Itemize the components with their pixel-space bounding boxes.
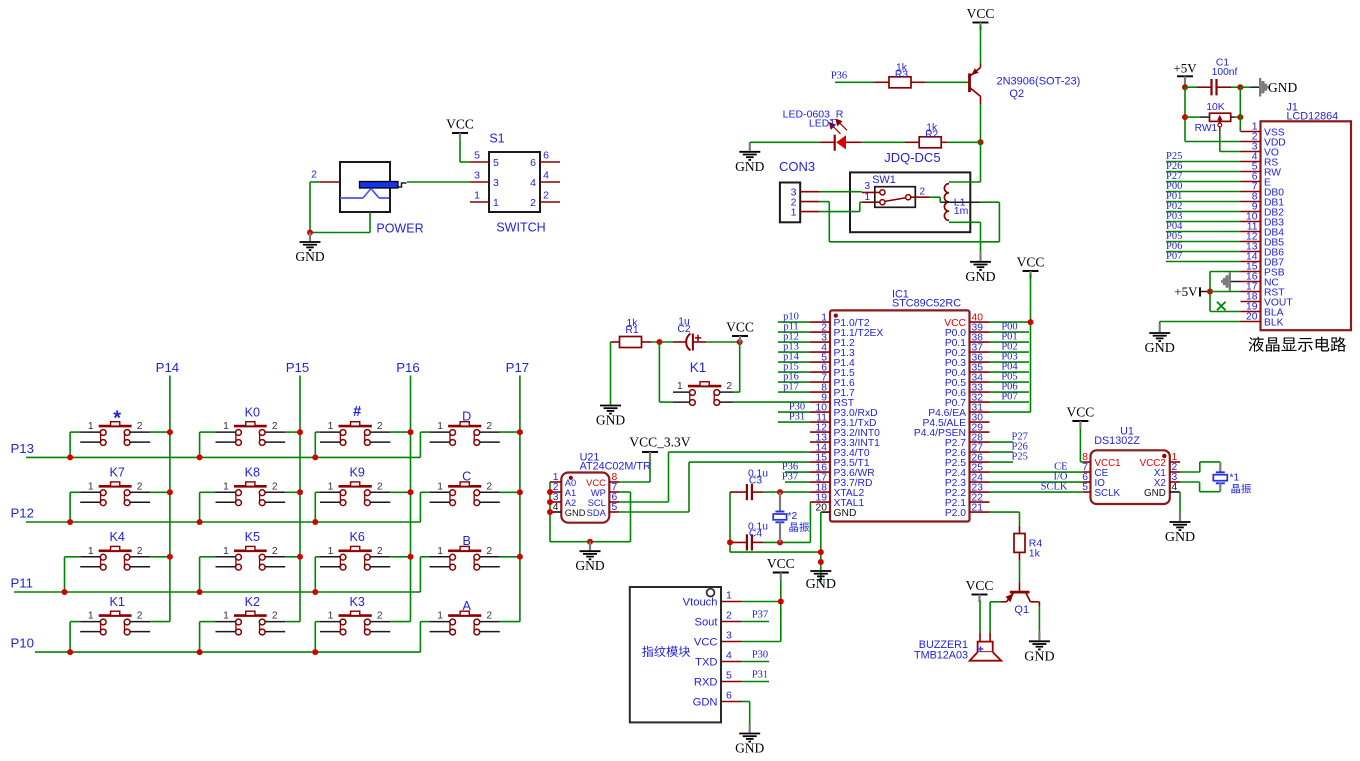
capacitor C1 100nf [1185, 58, 1240, 96]
svg-text:Vtouch: Vtouch [683, 597, 718, 609]
pin 15 of J1 [1241, 262, 1261, 273]
wire K4 pin1 to row bus [65, 557, 81, 592]
pin 7 of J1 [1241, 182, 1261, 193]
power +5V at J1 RST pin 17 [1174, 284, 1210, 299]
wire D pin2 to column P17 [500, 431, 520, 433]
pin 20 of IC1 [816, 502, 830, 513]
wire and net label CE from IC1 to U1 [990, 461, 1084, 472]
junction column P16 row 3 [408, 554, 414, 560]
transistor Q1 [1001, 583, 1039, 616]
wire GND to LED1 cathode [750, 141, 821, 143]
junction C1 right [1237, 84, 1243, 90]
wire and net label p16 at IC1 pin 7 [778, 372, 810, 383]
svg-text:3: 3 [474, 170, 480, 182]
svg-text:P13: P13 [11, 441, 34, 456]
pin 8 of U1 [1082, 452, 1090, 463]
svg-text:3: 3 [493, 177, 499, 189]
wire K8 pin1 to row bus [200, 492, 216, 522]
wire and net label P02 at J1 pin 9 [1166, 201, 1241, 212]
svg-text:K2: K2 [245, 595, 260, 609]
wire Q2 collector to relay coil top [949, 142, 981, 182]
wire * pin2 to column P14 [150, 431, 170, 433]
wire VCC node down to K1 pin2 top [733, 342, 740, 392]
switch K1 (key row P10 col P14) [80, 595, 150, 635]
power VCC above K1 [726, 320, 754, 344]
svg-text:VCC: VCC [967, 6, 995, 21]
wire R4 to Q1 collector [1019, 560, 1021, 582]
svg-text:R1: R1 [625, 325, 638, 336]
wire RW1 wiper to VO pin3 [1220, 131, 1241, 152]
svg-text:WP: WP [591, 488, 606, 498]
pin 13 of J1 [1241, 242, 1261, 253]
svg-text:4: 4 [1172, 482, 1178, 493]
wire CON3 pin1 to SW1 pin1 [820, 202, 862, 211]
pin 20 of J1 [1241, 312, 1261, 323]
junction C2 left node [656, 339, 662, 345]
svg-text:VCC: VCC [586, 478, 606, 488]
pin 22 of IC1 [970, 492, 990, 503]
svg-text:A0: A0 [565, 478, 576, 488]
wire U1 X2 to crystal [1180, 482, 1220, 492]
wire K0 pin1 to row bus [200, 432, 216, 457]
svg-text:VCC: VCC [446, 117, 474, 132]
junction column P14 row 3 [167, 554, 173, 560]
svg-text:GND: GND [575, 558, 604, 573]
svg-text:2: 2 [486, 611, 492, 622]
lcd connector J1 LCD12864 body [1261, 102, 1352, 331]
svg-text:1: 1 [223, 421, 229, 432]
wire and net label P03 at IC1 pin 36 [990, 352, 1030, 363]
power VCC above buzzer [966, 578, 994, 602]
wire K3 pin2 to column P16 [390, 621, 410, 623]
wire B pin1 to row bus [420, 557, 429, 592]
svg-text:VCC: VCC [1067, 405, 1095, 420]
power VCC above S1 [446, 117, 474, 141]
junction column P17 row 3 [517, 554, 523, 560]
svg-text:K0: K0 [245, 406, 260, 420]
resistor R1 1k [611, 318, 652, 348]
svg-text:P37: P37 [752, 610, 768, 621]
junction C4 left [727, 539, 733, 545]
power VCC above IC1 pin 40 [1017, 255, 1045, 279]
wire and net label P31 at fingerprint RXD [741, 670, 769, 682]
switch K8 (key row P12 col P15) [216, 466, 286, 506]
svg-text:GND: GND [806, 577, 836, 592]
svg-text:P10: P10 [11, 636, 34, 651]
wire VCC to fingerprint pin1 and pin3 [741, 580, 781, 642]
eeprom U21 AT24C02M/TR body [561, 452, 651, 523]
svg-text:SW1: SW1 [872, 174, 896, 186]
switch K3 (key row P10 col P16) [320, 595, 390, 635]
svg-text:2: 2 [543, 190, 549, 202]
wire and net label P25 at IC1 pin 26 [990, 451, 1028, 462]
wire VCC_3.3V to U21 pin 8 [619, 460, 650, 483]
pin 16 of IC1 [810, 462, 830, 473]
wire VCC to U1 pin 8 VCC1 [1079, 429, 1081, 463]
junction P10 bus at col 1 [67, 649, 73, 655]
wire and net label P36 at IC1 pin 16 [782, 462, 810, 473]
svg-text:2: 2 [377, 421, 383, 432]
pin 1 of SW1 [862, 192, 880, 203]
pin 38 of IC1 [970, 332, 990, 343]
junction U21 ground rail [587, 539, 593, 545]
svg-text:GND: GND [735, 741, 764, 756]
junction VCC node right of C2 [737, 339, 743, 345]
wire U1 pin 4 to ground [1179, 492, 1181, 513]
pin 40 of IC1 [970, 312, 990, 323]
svg-text:VCC: VCC [966, 578, 994, 593]
svg-text:C: C [462, 470, 471, 484]
svg-text:RW1: RW1 [1195, 123, 1218, 134]
resistor R3 1k [875, 63, 926, 88]
wire relay common to CON3 pin2 long route [820, 202, 1000, 242]
fingerprint module body (指纹模块) [630, 587, 721, 722]
power VCC above U1 [1067, 405, 1095, 429]
svg-text:1: 1 [474, 190, 480, 202]
svg-text:GND: GND [1165, 530, 1195, 545]
svg-text:GND: GND [1145, 341, 1175, 356]
svg-text:A2: A2 [565, 498, 576, 508]
svg-text:VCC: VCC [694, 637, 718, 649]
svg-text:*1: *1 [1230, 473, 1240, 484]
pin 16 of J1 [1241, 272, 1261, 283]
net label P36 and wire to R3 [831, 71, 875, 83]
pin 5 of S1 [470, 150, 489, 163]
svg-text:*2: *2 [788, 511, 798, 522]
junction column P15 row 1 [297, 429, 303, 435]
pin 6 of J1 [1241, 172, 1261, 183]
svg-text:1: 1 [437, 421, 443, 432]
wire and net label P04 at IC1 pin 35 [990, 362, 1030, 373]
junction column P14 row 2 [167, 489, 173, 495]
ground GND below U21 [575, 542, 604, 574]
pin 19 of IC1 [810, 492, 830, 503]
switch SW1 inside relay [872, 174, 915, 207]
svg-text:5: 5 [612, 502, 618, 513]
ground GND below R1 [596, 342, 625, 428]
svg-text:1: 1 [88, 481, 94, 492]
wire PSB to BLA loop [1210, 272, 1241, 312]
crystal Y2 (*2 crystal) [773, 492, 809, 542]
svg-text:1k: 1k [1029, 548, 1041, 560]
microcontroller IC1 STC89C52RC body [830, 289, 970, 522]
pin 1 of J1 [1241, 122, 1261, 133]
wire # pin2 to column P16 [390, 431, 410, 433]
wire R2 to Q2 collector node [948, 141, 981, 143]
junction crystal bottom at XTAL1 [777, 539, 783, 545]
pin 2 of J1 [1241, 132, 1261, 143]
svg-text:2: 2 [137, 481, 143, 492]
wire C4 to XTAL1 bend [763, 502, 810, 542]
pin 13 of IC1 [810, 432, 830, 443]
svg-text:2: 2 [137, 421, 143, 432]
svg-text:K1: K1 [690, 360, 707, 375]
svg-text:K4: K4 [109, 530, 124, 544]
pin 4 of S1 [540, 170, 560, 183]
svg-text:Q1: Q1 [1014, 604, 1029, 616]
svg-text:100nf: 100nf [1212, 67, 1238, 78]
svg-text:2: 2 [377, 611, 383, 622]
svg-text:K8: K8 [245, 466, 260, 480]
svg-text:P07: P07 [1001, 392, 1017, 403]
potentiometer RW1 10K [1185, 102, 1240, 134]
svg-text:4: 4 [553, 502, 559, 513]
pin 18 of IC1 [810, 482, 830, 493]
wire and net label P01 at IC1 pin 38 [990, 332, 1030, 343]
pin 14 of J1 [1241, 252, 1261, 263]
wire K3 pin1 to row bus [315, 622, 320, 653]
svg-text:2: 2 [137, 546, 143, 557]
wire Q2 collector down to relay node [980, 104, 982, 142]
svg-text:1: 1 [726, 590, 732, 602]
junction column P15 row 3 [297, 554, 303, 560]
junction P11 bus at col 3 [312, 589, 318, 595]
svg-text:P37: P37 [782, 472, 798, 483]
svg-text:P11: P11 [11, 576, 34, 591]
svg-text:1: 1 [437, 611, 443, 622]
wire IC1 pin 20 GND down [820, 512, 822, 582]
svg-text:K5: K5 [245, 530, 260, 544]
wire VCC to S1 pin 5 [460, 141, 470, 163]
junction GND rail lower [818, 559, 824, 565]
svg-text:SDA: SDA [587, 508, 607, 518]
pin 17 of IC1 [810, 472, 830, 483]
switch B (key row P11 col P17) [430, 534, 500, 570]
pin 9 of J1 [1241, 202, 1261, 213]
svg-text:VCC_3.3V: VCC_3.3V [629, 435, 690, 450]
svg-text:#: # [353, 404, 361, 420]
switch A (key row P10 col P17) [430, 599, 500, 635]
pin 3 of fingerprint module [721, 630, 741, 642]
pin 6 of IC1 [810, 362, 830, 373]
wire and net label P37 at fingerprint Sout [741, 610, 769, 622]
svg-text:S1: S1 [489, 132, 504, 146]
junction P13 bus at col 1 [67, 454, 73, 460]
pin 29 of IC1 [970, 422, 990, 433]
svg-text:A1: A1 [565, 488, 576, 498]
switch * (key row P13 col P14) [80, 408, 150, 446]
svg-text:P2.0: P2.0 [945, 508, 966, 519]
pin 27 of IC1 [970, 442, 990, 453]
pin 4 of U1 [1170, 482, 1180, 493]
pin 25 of IC1 [970, 462, 990, 473]
svg-text:2: 2 [920, 187, 926, 198]
junction at POWER ground [307, 230, 313, 236]
svg-text:GND: GND [735, 159, 764, 174]
svg-text:2: 2 [272, 481, 278, 492]
switch K5 (key row P11 col P15) [216, 530, 286, 570]
svg-text:VCC: VCC [767, 556, 795, 571]
svg-text:1: 1 [328, 546, 334, 557]
junction crystal top at XTAL2 [777, 489, 783, 495]
svg-text:+5V: +5V [1173, 61, 1197, 76]
svg-text:POWER: POWER [376, 221, 423, 235]
pin 4 of fingerprint module [721, 650, 741, 662]
svg-text:1: 1 [328, 421, 334, 432]
junction RW1 right [1237, 114, 1243, 120]
wire C pin1 to row bus [420, 492, 429, 522]
svg-text:LCD12864: LCD12864 [1287, 111, 1339, 123]
svg-text:GND: GND [1144, 488, 1166, 499]
junction P12 bus at col 2 [197, 519, 203, 525]
wire K9 pin1 to row bus [315, 492, 320, 522]
wire SDA from U21 to IC1 pin 15 [619, 462, 810, 512]
pin 39 of IC1 [970, 322, 990, 333]
svg-text:6: 6 [530, 157, 536, 169]
pin 22 of IC1 unconnected [0, 0, 1, 1]
svg-text:4: 4 [543, 170, 549, 182]
wire relay coil bottom to ground [949, 222, 981, 252]
svg-text:C3: C3 [749, 476, 762, 487]
svg-text:1: 1 [223, 481, 229, 492]
svg-text:SCLK: SCLK [1041, 481, 1068, 492]
wire and net label p17 at IC1 pin 8 [778, 382, 810, 393]
inductor L1 relay coil 1m [940, 184, 979, 221]
svg-text:GND: GND [834, 508, 857, 519]
svg-text:2N3906(SOT-23): 2N3906(SOT-23) [997, 75, 1081, 87]
wire column P16 vertical [410, 376, 412, 622]
junction column P14 row 1 [167, 429, 173, 435]
wire column P14 vertical [169, 376, 171, 622]
pin 6 of U1 [1082, 472, 1090, 483]
junction RW1 left [1182, 114, 1188, 120]
junction P10 bus at col 3 [312, 649, 318, 655]
wire C3/C4 left common [729, 492, 731, 552]
svg-text:20: 20 [816, 502, 828, 513]
svg-text:K7: K7 [109, 466, 124, 480]
wire and net label P31 at IC1 pin 11 [778, 412, 810, 423]
wire and net label P00 at J1 pin 7 [1166, 181, 1241, 192]
wire and net label P07 at IC1 pin 32 [990, 392, 1030, 403]
wire K2 pin1 to row bus [200, 622, 216, 653]
svg-text:1m: 1m [954, 205, 969, 217]
switch K6 (key row P11 col P16) [320, 530, 390, 570]
wire K9 pin2 to column P16 [390, 491, 410, 493]
pin 7 of U1 [1082, 462, 1090, 473]
wire column P15 vertical [299, 376, 301, 622]
svg-text:2: 2 [486, 421, 492, 432]
svg-text:Q2: Q2 [1009, 88, 1024, 100]
svg-text:1: 1 [493, 197, 499, 209]
pin 1 of U21 [550, 472, 561, 483]
junction P12 bus at col 3 [312, 519, 318, 525]
wire and net label P37 at IC1 pin 17 [782, 472, 810, 483]
pin 11 of IC1 [810, 412, 830, 423]
wire K7 pin1 to row bus [70, 492, 80, 522]
svg-text:GND: GND [565, 508, 586, 518]
svg-text:K6: K6 [349, 530, 364, 544]
ground GND under POWER [295, 233, 324, 265]
pin 2 of S1 [540, 190, 560, 203]
wire XTAL ground link to IC1 pin20 rail [730, 551, 821, 553]
wire row bus P11 [14, 591, 420, 593]
wire A pin1 to row bus [420, 622, 429, 653]
wire K1 pin2 to column P14 [150, 621, 170, 623]
pin 2 of CON3 [800, 201, 820, 203]
resistor R4 1k vertical [1014, 526, 1042, 560]
wire and net label p12 at IC1 pin 3 [778, 332, 810, 343]
pin 23 of IC1 [970, 482, 990, 493]
pin 8 of IC1 [810, 382, 830, 393]
wire and net label p13 at IC1 pin 4 [778, 342, 810, 353]
pin 11 of J1 [1241, 222, 1261, 233]
svg-text:P17: P17 [506, 360, 529, 375]
svg-text:STC89C52RC: STC89C52RC [892, 298, 961, 310]
junction U21 pin2 [547, 489, 553, 495]
pin 3 of IC1 [810, 332, 830, 343]
svg-text:TXD: TXD [695, 657, 717, 669]
wire Q1 emitter to buzzer [990, 602, 1001, 633]
svg-text:DS1302Z: DS1302Z [1094, 435, 1140, 447]
wire U21 WP to ground rail [619, 492, 630, 542]
wire B pin2 to column P17 [500, 556, 520, 558]
svg-text:BLK: BLK [1264, 318, 1284, 329]
wire and net label P05 at J1 pin 12 [1166, 231, 1241, 242]
svg-text:2: 2 [530, 197, 536, 209]
wire POWER to GND loop [310, 182, 370, 233]
pin 36 of IC1 [970, 352, 990, 363]
svg-text:2: 2 [137, 611, 143, 622]
wire J1 BLK pin 20 to ground [1160, 322, 1241, 324]
junction +5V RST [1207, 289, 1213, 295]
ground GND left of LED1 [735, 142, 764, 174]
svg-text:1: 1 [223, 611, 229, 622]
led LED1 LED-0603_R [783, 109, 862, 151]
svg-text:1: 1 [437, 546, 443, 557]
wire and net label p10 at IC1 pin 1 [778, 312, 810, 323]
wire D pin1 to row bus [420, 432, 429, 457]
wire and net label P03 at J1 pin 10 [1166, 211, 1241, 222]
wire and net label p11 at IC1 pin 2 [778, 322, 810, 333]
wire and net label P30 at IC1 pin 10 [778, 402, 810, 413]
wire +5V rail down to VDD [1185, 87, 1241, 141]
svg-text:P36: P36 [831, 71, 847, 82]
wire K0 pin2 to column P15 [285, 431, 300, 433]
switch K9 (key row P12 col P16) [320, 466, 390, 506]
pin 37 of IC1 [970, 342, 990, 353]
pin 33 of IC1 [970, 382, 990, 393]
wire and net label P07 at J1 pin 14 [1166, 251, 1241, 262]
svg-text:1: 1 [328, 481, 334, 492]
wire and net label p14 at IC1 pin 5 [778, 352, 810, 363]
pin 1 of U1 [1170, 452, 1180, 463]
pin 6 of S1 [540, 150, 560, 163]
label LCD circuit caption 液晶显示电路 [1249, 337, 1346, 352]
switch D (key row P13 col P17) [430, 410, 500, 446]
junction column P15 row 2 [297, 489, 303, 495]
pin 24 of IC1 [970, 472, 990, 483]
transistor Q2 2N3906 PNP [970, 63, 1081, 104]
wire K5 pin1 to row bus [200, 557, 216, 592]
svg-text:2: 2 [272, 546, 278, 557]
pin 34 of IC1 [970, 372, 990, 383]
pin 3 of CON3 [800, 191, 820, 193]
wire R3 to Q2 base [925, 81, 968, 83]
rtc U1 DS1302Z body [1091, 426, 1170, 505]
svg-text:2: 2 [486, 481, 492, 492]
pin 5 of IC1 [810, 352, 830, 363]
pin 14 of IC1 [810, 442, 830, 453]
svg-text:P07: P07 [1166, 251, 1182, 262]
svg-text:p17: p17 [783, 382, 799, 393]
svg-text:+5V: +5V [1174, 284, 1198, 299]
ground GND below J1 [1145, 324, 1175, 357]
svg-text:P31: P31 [789, 412, 805, 423]
svg-text:1: 1 [437, 481, 443, 492]
wire and net label P26 at IC1 pin 27 [990, 441, 1028, 452]
wire and net label P06 at J1 pin 13 [1166, 241, 1241, 252]
junction GND rail upper [818, 549, 824, 555]
